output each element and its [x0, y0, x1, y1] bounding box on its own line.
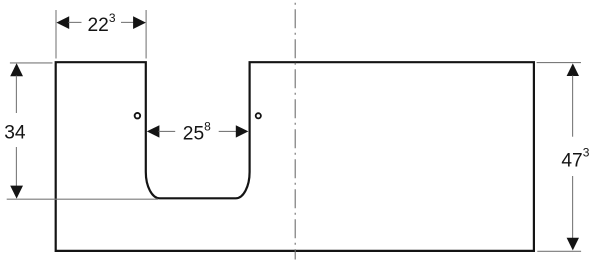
dim 47-3 arrow bottom [567, 238, 579, 251]
dim 22-3 arrow left [56, 16, 69, 29]
dim 47-3 arrow top [567, 63, 579, 76]
hole right [256, 113, 261, 118]
dim 47-3 extension line top [537, 62, 581, 64]
hole left [135, 113, 141, 119]
worktop outline with U-notch [56, 62, 534, 251]
centerline (dash-dot) [294, 3, 296, 260]
dim 22-3 extension line right [145, 10, 147, 59]
dim 47-3 line lower [572, 176, 574, 238]
dim 22-3 tail right [121, 21, 134, 23]
dim 22-3 extension line left [55, 10, 57, 59]
dim 34 extension line bottom [7, 198, 158, 200]
dim 22-3 tail left [69, 21, 82, 23]
dim 34 extension line top [10, 62, 53, 64]
dim 25-8 arrow left [147, 125, 160, 137]
dim 34 arrow top [10, 63, 23, 76]
dim 25-8 arrow right [236, 125, 249, 137]
dim 25-8 tail left [159, 130, 176, 132]
dim 34 line lower [15, 147, 17, 187]
dim 47-3 extension line bottom [537, 250, 581, 252]
dim 47-3 line upper [572, 76, 574, 137]
svg-text:34: 34 [4, 123, 26, 144]
dim 34 arrow bottom [10, 186, 23, 199]
dim 25-8 tail right [219, 130, 237, 132]
dim 22-3 arrow right [133, 16, 146, 29]
dim 34 line upper [15, 76, 17, 113]
